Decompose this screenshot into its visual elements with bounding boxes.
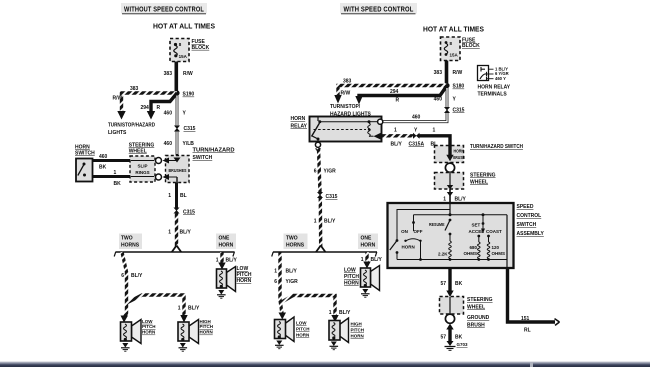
svg-text:HORN: HORN: [351, 334, 364, 339]
wire: 151 RL output to right (thick with arrow): [508, 268, 556, 322]
wire: 1 BL brushes to C315: [175, 183, 178, 208]
svg-text:HORN: HORN: [237, 278, 252, 284]
wire: 1 BL to horn brush (thick black): [420, 136, 451, 156]
svg-text:294: 294: [141, 105, 150, 111]
svg-text:ASSEMBLY: ASSEMBLY: [517, 231, 545, 237]
svg-text:BL: BL: [431, 141, 438, 147]
low pitch horn (one-horn option, left diagram): [217, 267, 236, 299]
horn switch SW1: [76, 159, 93, 182]
svg-text:HORN: HORN: [75, 144, 90, 150]
wire: fuse to S180, 383 R/W: [445, 61, 449, 84]
svg-text:1: 1: [394, 128, 397, 134]
slip ring contact (bottom): [156, 174, 162, 180]
svg-text:HORN: HORN: [200, 330, 213, 335]
svg-text:ON: ON: [401, 229, 408, 234]
svg-text:G703: G703: [457, 342, 469, 347]
svg-text:S190: S190: [183, 92, 195, 98]
on/off switch: [413, 215, 415, 231]
low pitch horn (right diagram): [275, 317, 295, 349]
svg-text:RL: RL: [524, 328, 531, 334]
connector C315A: [413, 133, 420, 139]
svg-text:TURN/HAZARD: TURN/HAZARD: [193, 148, 235, 154]
svg-text:383: 383: [434, 70, 443, 76]
horn relay K1: [310, 117, 382, 142]
junction legs at rail: [172, 246, 177, 253]
svg-text:460 Y: 460 Y: [495, 76, 506, 81]
svg-text:CONTROL: CONTROL: [517, 213, 542, 219]
speed control internals: [390, 203, 507, 268]
svg-text:SWITCH: SWITCH: [517, 222, 537, 228]
svg-text:LOW: LOW: [296, 321, 307, 326]
svg-text:ACCEL: ACCEL: [469, 229, 485, 234]
horn switch: [396, 239, 399, 242]
wire: 57 BK speed control to steering wheel (thick): [448, 268, 451, 291]
svg-text:R/W: R/W: [113, 96, 123, 102]
svg-text:BK: BK: [455, 281, 463, 287]
low pitch horn (one-horn option, right diagram): [361, 266, 380, 298]
wire: fuse to S190, 383 R/W: [175, 62, 179, 92]
svg-text:460: 460: [164, 111, 173, 117]
svg-text:TERMINALS: TERMINALS: [478, 91, 508, 97]
bottom bus: [397, 259, 507, 261]
svg-text:151: 151: [521, 316, 530, 322]
wire: 1 BL/Y branch to high pitch horn (striped): [280, 296, 335, 317]
fuse block F1 (left): [170, 39, 189, 62]
wire: 460 to horn relay (double line): [383, 113, 447, 122]
relay bottom terminal (open circle): [315, 142, 320, 147]
speed control switch assembly box: [388, 203, 514, 268]
svg-text:WITHOUT SPEED CONTROL: WITHOUT SPEED CONTROL: [124, 4, 204, 13]
680 ohm resistor: [478, 236, 480, 242]
title: WITH SPEED CONTROL: [340, 3, 417, 14]
svg-text:1: 1: [178, 306, 181, 312]
svg-text:PITCH: PITCH: [344, 274, 359, 280]
wire to horn switch branch: [397, 210, 450, 241]
label box: TWO HORNS (right): [284, 234, 308, 250]
junction legs at rail: [316, 246, 321, 253]
svg-text:C315: C315: [184, 126, 196, 132]
wire: 294 R branch (thick black): [359, 86, 447, 98]
svg-text:57: 57: [440, 281, 446, 287]
svg-text:2.2K: 2.2K: [438, 252, 448, 257]
splice node S190: [174, 90, 179, 95]
relay terminal (460 Y input, open circle): [378, 119, 383, 124]
120 ohm resistor: [488, 236, 490, 242]
svg-text:HIGH: HIGH: [200, 319, 211, 324]
svg-text:C315: C315: [183, 210, 195, 216]
right inner drop: [506, 215, 508, 268]
low pitch horn (left diagram): [121, 320, 142, 352]
svg-text:460: 460: [434, 97, 443, 103]
set accel / coast switch: [482, 215, 484, 229]
svg-text:PITCH: PITCH: [142, 324, 156, 329]
svg-text:Y: Y: [453, 97, 457, 103]
label box: ONE HORN (left): [216, 234, 236, 250]
svg-text:1: 1: [216, 258, 219, 264]
horn option rail (right diagram): [272, 252, 377, 257]
svg-text:BL: BL: [180, 193, 187, 199]
svg-text:ONE: ONE: [219, 236, 231, 242]
svg-text:1: 1: [168, 193, 171, 199]
svg-text:15A: 15A: [450, 53, 459, 58]
svg-text:HORN: HORN: [402, 245, 415, 250]
svg-text:LIGHTS: LIGHTS: [108, 130, 127, 136]
wire: 460 Y/LB to brushes (double line): [176, 132, 179, 157]
svg-text:6: 6: [121, 273, 124, 279]
ground brush contact circle: [445, 314, 454, 323]
svg-text:Y: Y: [414, 128, 418, 134]
wire: 1 BL/Y branch to high pitch horn (striped): [127, 295, 185, 316]
label box: ONE HORN (right): [358, 234, 378, 250]
svg-text:TWO: TWO: [286, 236, 298, 242]
svg-text:15A: 15A: [179, 54, 188, 59]
svg-text:1: 1: [361, 257, 364, 263]
svg-text:PITCH: PITCH: [351, 328, 365, 333]
svg-text:1: 1: [433, 128, 436, 134]
top bus: [414, 214, 508, 216]
svg-text:HORN: HORN: [454, 149, 465, 154]
wire: 383 R/W branch to turn/stop/hazard lights (striped): [122, 93, 178, 112]
svg-text:BL/Y: BL/Y: [371, 257, 383, 263]
svg-text:Y/GR: Y/GR: [286, 279, 299, 285]
wire: 6 Y/GR relay to C315 (striped): [319, 148, 321, 192]
svg-text:Y/GR: Y/GR: [324, 169, 337, 175]
svg-text:PITCH: PITCH: [296, 327, 310, 332]
svg-text:460: 460: [412, 115, 421, 121]
slip rings (steering wheel): [130, 156, 155, 182]
svg-text:C315A: C315A: [409, 141, 425, 147]
wire: 460 Y S180 to C315 (double line): [446, 88, 449, 107]
svg-text:R/W: R/W: [453, 70, 463, 76]
svg-text:BL/Y: BL/Y: [131, 273, 143, 279]
svg-text:R: R: [396, 97, 400, 103]
svg-text:6: 6: [274, 279, 277, 285]
svg-text:WHEEL: WHEEL: [129, 148, 147, 154]
svg-text:BL/Y: BL/Y: [188, 306, 200, 312]
svg-text:TURN/HAZARD SWITCH: TURN/HAZARD SWITCH: [470, 144, 523, 150]
wire: 383 R/W branch to turn/stop/hazard lights (striped): [338, 86, 447, 97]
svg-text:HOT AT ALL TIMES: HOT AT ALL TIMES: [423, 27, 484, 34]
steering wheel box (right, lower): [440, 297, 464, 315]
svg-text:R/W: R/W: [183, 71, 193, 77]
svg-text:HORN RELAY: HORN RELAY: [478, 84, 511, 90]
svg-text:OHMS: OHMS: [492, 251, 506, 256]
svg-text:GROUND: GROUND: [467, 315, 490, 321]
ground G703: [445, 341, 456, 350]
svg-text:BLOCK: BLOCK: [192, 45, 210, 51]
svg-text:SWITCH: SWITCH: [193, 155, 213, 161]
wire: 460 BK horn switch to slip rings: [92, 159, 131, 162]
svg-text:TURN/STOP/HAZARD: TURN/STOP/HAZARD: [108, 123, 155, 129]
resume switch + 2.2K resistor: [449, 219, 452, 222]
svg-text:HOT AT ALL TIMES: HOT AT ALL TIMES: [153, 24, 215, 31]
svg-text:1: 1: [329, 310, 332, 316]
svg-text:HIGH: HIGH: [351, 322, 362, 327]
wire: 1 BL/Y C315 to horn rail (striped): [319, 198, 323, 247]
fuse block F2 (right): [441, 37, 461, 61]
svg-text:RINGS: RINGS: [135, 170, 149, 175]
svg-text:WHEEL: WHEEL: [467, 305, 485, 311]
svg-text:LOW: LOW: [344, 268, 356, 274]
svg-text:STEERING: STEERING: [470, 172, 496, 178]
svg-text:294: 294: [390, 89, 399, 95]
horn brush box (turn/hazard switch): [435, 146, 465, 163]
svg-text:BK: BK: [455, 335, 463, 341]
svg-text:460: 460: [99, 154, 108, 160]
slip ring contact (top): [156, 158, 162, 164]
svg-text:680: 680: [469, 245, 477, 250]
svg-text:BLOCK: BLOCK: [462, 43, 480, 49]
svg-text:WITH SPEED CONTROL: WITH SPEED CONTROL: [344, 4, 414, 13]
svg-text:57: 57: [440, 335, 446, 341]
high pitch horn (right diagram): [329, 318, 349, 350]
svg-text:HORN: HORN: [142, 330, 155, 335]
horn brush contact circle: [445, 163, 454, 172]
wire: 1 BL/Y rail to one-horn low pitch horn (striped): [365, 252, 368, 262]
svg-text:HORN: HORN: [291, 116, 306, 122]
connector C315 (left lower): [174, 208, 180, 214]
wire: 1 BL/Y steering wheel to speed control box: [449, 189, 451, 203]
svg-text:HORN: HORN: [344, 281, 359, 287]
svg-text:COAST: COAST: [486, 229, 502, 234]
title: WITHOUT SPEED CONTROL: [121, 3, 207, 14]
svg-text:PITCH: PITCH: [200, 324, 214, 329]
svg-text:1: 1: [114, 170, 117, 176]
entry wire: [449, 203, 451, 215]
svg-text:1: 1: [443, 197, 446, 203]
svg-text:LOW: LOW: [142, 319, 153, 324]
wire: 6 BL/Y rail to low pitch horn (striped): [122, 252, 127, 318]
svg-text:SWITCH: SWITCH: [75, 150, 95, 156]
svg-text:C315: C315: [453, 108, 465, 114]
svg-text:OFF: OFF: [414, 229, 423, 234]
svg-text:WHEEL: WHEEL: [470, 179, 488, 185]
svg-text:STEERING: STEERING: [467, 297, 493, 303]
label box: TWO HORNS (left): [119, 234, 142, 250]
svg-text:SPEED: SPEED: [517, 204, 534, 210]
svg-text:HORNS: HORNS: [121, 243, 140, 249]
svg-text:1: 1: [168, 230, 171, 236]
svg-text:383: 383: [164, 71, 173, 77]
svg-text:BK: BK: [114, 181, 122, 187]
svg-text:Y: Y: [183, 111, 187, 117]
wire: relay output 1 BL/Y to C315A (striped): [382, 134, 413, 137]
wire: 57 BK ground brush to ground (thick, up arrow): [446, 324, 453, 330]
svg-text:BL/Y: BL/Y: [226, 258, 238, 264]
svg-text:1: 1: [314, 219, 317, 225]
svg-text:1: 1: [274, 269, 277, 275]
connector C315 (right upper): [444, 107, 450, 113]
svg-text:BL/Y: BL/Y: [455, 197, 467, 203]
wire: 1 BL/Y C315 to horn rail (striped): [175, 214, 178, 247]
wire: 460 Y (unhighlighted double line) S190 to C315: [176, 96, 179, 126]
svg-text:120: 120: [492, 245, 500, 250]
svg-text:TWO: TWO: [121, 236, 133, 242]
svg-text:Y/LB: Y/LB: [183, 141, 195, 147]
horn option rail (left diagram): [114, 252, 234, 257]
svg-text:BK: BK: [99, 165, 107, 171]
wire: 1 BK horn switch to slip rings: [92, 175, 131, 178]
brushes box: [163, 156, 190, 183]
svg-text:S180: S180: [453, 84, 465, 90]
svg-text:ONE: ONE: [361, 236, 373, 242]
svg-text:BL/Y: BL/Y: [180, 230, 192, 236]
svg-text:R/W: R/W: [341, 90, 351, 96]
svg-text:HORNS: HORNS: [286, 243, 305, 249]
splice node S180: [444, 83, 449, 88]
svg-text:BL/Y: BL/Y: [286, 269, 298, 275]
bottom toolbar: [0, 362, 650, 367]
wire: 294 R branch (thick black): [151, 93, 177, 112]
svg-text:SET: SET: [472, 223, 481, 228]
svg-text:C315: C315: [326, 194, 338, 200]
svg-text:OHMS: OHMS: [464, 251, 478, 256]
svg-text:6: 6: [314, 169, 317, 175]
connector C315 (right lower): [317, 192, 323, 198]
horn relay terminals legend: [478, 66, 509, 81]
svg-text:RESUME: RESUME: [429, 222, 445, 227]
svg-text:R: R: [157, 105, 161, 111]
wire: 1 BL/Y rail to one-horn low pitch horn (striped): [220, 252, 223, 263]
svg-text:HORN: HORN: [296, 333, 309, 338]
connector C315 (left upper): [174, 126, 180, 132]
svg-text:BRUSH: BRUSH: [453, 155, 465, 160]
svg-text:TURN/STOP/: TURN/STOP/: [330, 104, 361, 110]
svg-text:HORN: HORN: [219, 243, 234, 249]
svg-text:BRUSH: BRUSH: [467, 323, 485, 329]
svg-text:460: 460: [164, 141, 173, 147]
wire: rail to low pitch horn, 1 BL/Y then 6 Y/GR (striped): [280, 252, 282, 314]
svg-text:SLIP: SLIP: [137, 164, 147, 169]
svg-text:383: 383: [130, 86, 139, 92]
svg-text:BL/Y: BL/Y: [339, 310, 351, 316]
svg-text:RELAY: RELAY: [291, 124, 308, 130]
svg-text:HORN: HORN: [361, 243, 376, 249]
svg-text:BL/Y: BL/Y: [324, 219, 336, 225]
svg-text:BL/Y: BL/Y: [391, 141, 403, 147]
high pitch horn (left diagram): [178, 320, 199, 352]
svg-text:BRUSHES: BRUSHES: [169, 168, 187, 173]
steering wheel box (right, upper): [435, 173, 464, 190]
svg-text:383: 383: [343, 78, 352, 84]
